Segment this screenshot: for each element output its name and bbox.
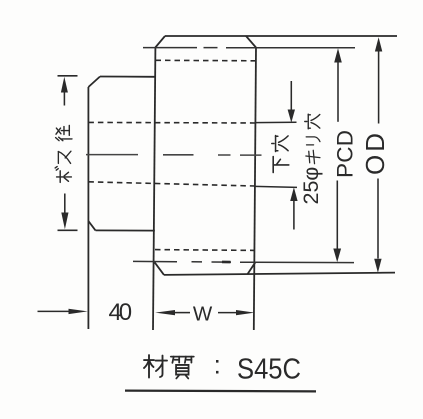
- svg-text:25φ: 25φ: [299, 167, 323, 205]
- svg-text:S45C: S45C: [237, 354, 301, 386]
- pitch chain line bottom (PCD extension): [133, 261, 354, 262]
- label ボス径 (rotated): [55, 125, 72, 182]
- svg-text:OD: OD: [360, 133, 390, 175]
- boss bottom-left chamfer: [88, 221, 95, 230]
- OD dimension line top arrow: [375, 37, 382, 51]
- svg-text:40: 40: [109, 299, 133, 326]
- pilot bore bottom extension line: [255, 186, 297, 187]
- pilot hole down arrow: [290, 81, 292, 110]
- label 25φキリ穴 (rotated): [299, 114, 323, 204]
- center chain line: [86, 154, 262, 157]
- pilot bore top extension line: [255, 121, 297, 123]
- boss top-left chamfer: [88, 77, 100, 88]
- pilot hole up arrow: [290, 187, 297, 201]
- gear body left edge + W extension: [153, 48, 155, 331]
- svg-text:PCD: PCD: [333, 130, 358, 178]
- label 下穴 (rotated): [272, 136, 289, 173]
- rim hole hidden line bottom: [155, 249, 255, 252]
- gear body bottom-left chamfer: [155, 262, 164, 275]
- rim hole hidden line top: [156, 59, 256, 62]
- boss dia dimension: down arrow: [64, 194, 66, 214]
- gear body top-right chamfer: [246, 36, 256, 48]
- chain blob artifact: [222, 261, 231, 264]
- gear body bottom edge + OD bottom extension line: [164, 273, 395, 275]
- gear body top edge + OD top extension line: [165, 35, 397, 37]
- OD dimension line bottom arrow: [377, 179, 379, 259]
- pilot bore hidden line top: [88, 121, 255, 124]
- title underline: [125, 390, 316, 393]
- boss bottom edge: [96, 229, 155, 231]
- title 材質 : S45C: [144, 350, 301, 386]
- boss dia dimension: up arrow: [61, 77, 68, 93]
- gear body right edge + W extension: [254, 48, 256, 331]
- PCD dimension line bottom arrow: [336, 181, 338, 249]
- boss dia dimension: top tick: [58, 75, 78, 77]
- W dimension left arrow: [155, 310, 175, 315]
- W dimension right arrow: [218, 312, 236, 314]
- boss left edge + 40 extension line: [87, 87, 89, 329]
- pitch chain line top (PCD extension): [143, 47, 355, 49]
- gear body top-left chamfer: [155, 36, 165, 48]
- svg-text:W: W: [193, 302, 213, 325]
- pilot bore hidden line bottom: [88, 182, 255, 186]
- boss dia dimension: bottom tick: [58, 229, 78, 231]
- 40 dimension arrow: [38, 310, 70, 312]
- boss top edge: [100, 76, 155, 78]
- svg-text::: :: [214, 350, 221, 380]
- PCD dimension line top arrow: [334, 48, 342, 62]
- gear body bottom-right chamfer: [248, 263, 256, 275]
